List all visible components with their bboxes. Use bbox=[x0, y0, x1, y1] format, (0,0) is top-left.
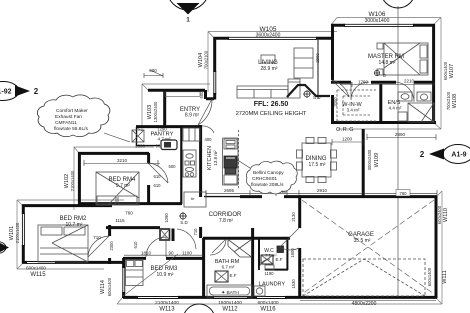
living coffee table bbox=[261, 55, 275, 63]
bed2 bed bbox=[38, 225, 88, 262]
window W114 thin bbox=[123, 267, 125, 293]
ENS shower bbox=[408, 103, 434, 122]
svg-text:flowrate 55.6L/s: flowrate 55.6L/s bbox=[54, 126, 88, 132]
svg-text:1530: 1530 bbox=[291, 279, 296, 289]
marker A1-91 left lower tip bbox=[0, 243, 9, 252]
svg-text:600x2400: 600x2400 bbox=[437, 205, 442, 224]
kitchen sink bbox=[224, 139, 237, 149]
window W101 thin bbox=[22, 213, 24, 246]
svg-text:W108: W108 bbox=[452, 94, 458, 108]
dim line master bottom 1760 2210 bbox=[340, 82, 434, 87]
laundry garage door arc bbox=[280, 228, 299, 250]
garage cross lines bbox=[302, 200, 434, 294]
svg-text:2130: 2130 bbox=[291, 212, 296, 222]
svg-text:O.R.G: O.R.G bbox=[336, 127, 354, 133]
bath door arc bbox=[210, 239, 226, 255]
svg-text:E.F: E.F bbox=[275, 257, 282, 262]
pantry sink fixture bbox=[161, 140, 177, 150]
svg-text:CRHC9S01: CRHC9S01 bbox=[252, 176, 277, 182]
svg-text:17.5 m²: 17.5 m² bbox=[309, 162, 326, 168]
ENS toilet bbox=[417, 92, 431, 101]
dim leader 600 arrow bbox=[150, 70, 163, 76]
svg-text:7.8 m²: 7.8 m² bbox=[219, 218, 234, 224]
section marker 1 top bbox=[167, 0, 209, 10]
svg-text:E.F: E.F bbox=[229, 273, 236, 278]
svg-text:2: 2 bbox=[34, 87, 39, 96]
svg-text:W115: W115 bbox=[30, 272, 46, 278]
svg-text:Bellini Canopy: Bellini Canopy bbox=[253, 170, 284, 176]
svg-text:610: 610 bbox=[154, 183, 162, 188]
outer eave bed4 left bbox=[74, 147, 154, 210]
wall pantry bottom nib bbox=[136, 127, 160, 146]
svg-text:4.7 m²: 4.7 m² bbox=[157, 137, 170, 142]
wall master top W106 chunks bbox=[331, 24, 435, 27]
wall bed4 right bbox=[147, 153, 150, 204]
svg-text:28.9 m²: 28.9 m² bbox=[261, 66, 278, 72]
svg-text:1300x2400: 1300x2400 bbox=[153, 101, 158, 122]
outer eave line living top bbox=[208, 32, 337, 93]
wall master right upper bbox=[432, 24, 435, 123]
wall bed2 right bbox=[108, 225, 111, 264]
WIN door arc bbox=[351, 82, 369, 100]
wall entry left W103 bbox=[163, 89, 166, 126]
wall bed4 left W102 bbox=[78, 152, 81, 205]
bed4 robe closet bbox=[183, 150, 196, 177]
wall master left bbox=[331, 24, 334, 80]
dim leader cloud1 bbox=[104, 133, 130, 142]
bed3 leader diagonal bbox=[123, 254, 178, 296]
bath shower bbox=[228, 240, 252, 258]
svg-text:90: 90 bbox=[156, 144, 161, 149]
window W116 thin bbox=[256, 297, 286, 299]
window W113 thin bbox=[137, 297, 179, 299]
wall living top W105 chunks bbox=[214, 37, 333, 40]
bed2 door arc bbox=[88, 236, 109, 257]
wall bed2 bottom W115 chunks bbox=[22, 261, 124, 264]
wall WIN ENS bottom bbox=[331, 121, 436, 124]
svg-text:S D: S D bbox=[313, 95, 321, 100]
garage dashed door rect bbox=[303, 259, 425, 296]
dining table bbox=[302, 143, 331, 177]
wc dark box bbox=[277, 246, 284, 253]
svg-text:10.9 m²: 10.9 m² bbox=[157, 272, 174, 278]
svg-text:1190: 1190 bbox=[264, 271, 274, 276]
wall corridor kitchen bottom thin bbox=[204, 196, 240, 198]
svg-text:90: 90 bbox=[168, 251, 174, 256]
window W112 thin bbox=[213, 297, 248, 299]
svg-text:600x1400: 600x1400 bbox=[443, 61, 448, 80]
robe lower box bbox=[184, 192, 206, 207]
svg-text:700x2100: 700x2100 bbox=[204, 50, 209, 69]
svg-text:3600x2400: 3600x2400 bbox=[256, 33, 281, 39]
dim line org 2890 bbox=[367, 134, 436, 140]
svg-text:2000: 2000 bbox=[333, 97, 338, 107]
svg-text:500: 500 bbox=[169, 164, 177, 169]
wall wc box bbox=[259, 238, 288, 270]
svg-text:710: 710 bbox=[93, 235, 101, 240]
svg-text:br: br bbox=[191, 196, 195, 201]
dim line garage bottom 4800 bbox=[300, 300, 436, 302]
svg-text:400: 400 bbox=[205, 137, 213, 142]
svg-text:9.7 m²: 9.7 m² bbox=[116, 183, 131, 189]
dim line corridor bottom row bbox=[206, 190, 437, 196]
svg-text:2: 2 bbox=[420, 150, 425, 159]
smoke detector corridor bbox=[179, 212, 187, 220]
wall corridor bottom left bbox=[106, 226, 160, 229]
svg-text:4.4 m²: 4.4 m² bbox=[389, 106, 402, 111]
svg-text:✦ BATH: ✦ BATH bbox=[221, 290, 239, 296]
svg-text:FFL: 26.50: FFL: 26.50 bbox=[254, 101, 289, 108]
wall dining right W109 bbox=[362, 129, 365, 197]
svg-text:500: 500 bbox=[199, 91, 204, 99]
svg-text:W116: W116 bbox=[260, 307, 276, 313]
svg-text:2210: 2210 bbox=[404, 79, 415, 84]
svg-text:2100x1400: 2100x1400 bbox=[15, 222, 20, 243]
wall corridor right stub bbox=[199, 227, 202, 238]
wall kitchen dining bottom bbox=[240, 195, 300, 198]
bed4 door arc bbox=[148, 163, 168, 183]
wall master bottom segments bbox=[331, 81, 435, 84]
wall garage top bbox=[299, 195, 437, 198]
svg-text:600x1400: 600x1400 bbox=[107, 277, 112, 296]
marker A1-92 left bbox=[0, 82, 19, 101]
wall bath left bbox=[202, 238, 205, 298]
svg-text:Comfort Maker: Comfort Maker bbox=[56, 108, 88, 114]
wall bottom main chunks bbox=[123, 296, 437, 299]
svg-text:2695: 2695 bbox=[224, 188, 235, 193]
svg-text:4800x2200: 4800x2200 bbox=[352, 301, 377, 307]
wall garage left segments bbox=[298, 196, 301, 298]
svg-text:2900: 2900 bbox=[315, 53, 320, 63]
kitchen entry arc bbox=[202, 126, 214, 133]
svg-text:610: 610 bbox=[133, 241, 138, 249]
svg-text:600x1400: 600x1400 bbox=[26, 266, 46, 271]
bed3 bed bbox=[126, 260, 144, 286]
svg-text:3.4 m²: 3.4 m² bbox=[347, 108, 360, 113]
wc toilet bbox=[265, 265, 274, 270]
master bed pillows bbox=[420, 45, 427, 58]
kitchen bench lower bbox=[224, 175, 237, 184]
wall robe left bbox=[180, 127, 182, 204]
svg-text:600: 600 bbox=[149, 68, 157, 73]
svg-text:1090: 1090 bbox=[164, 213, 169, 223]
wall kitchen left bbox=[199, 125, 202, 197]
section marker bottom circle bbox=[183, 304, 215, 313]
wall WIN ENS divider bbox=[379, 84, 382, 122]
dim line 600 entry diag bbox=[144, 73, 163, 78]
wall pantry top bbox=[136, 125, 202, 128]
svg-text:1200: 1200 bbox=[342, 137, 353, 142]
corridor linen X box bbox=[160, 229, 170, 240]
section line vertical bbox=[397, 6, 399, 297]
svg-text:W112: W112 bbox=[222, 307, 238, 313]
wall bed2 top bbox=[22, 204, 112, 207]
svg-text:610: 610 bbox=[154, 174, 162, 179]
outer eave garage bbox=[117, 191, 442, 304]
svg-text:35.5 m²: 35.5 m² bbox=[354, 238, 371, 244]
svg-text:6.7 m²: 6.7 m² bbox=[222, 265, 235, 270]
svg-text:1100: 1100 bbox=[182, 251, 192, 256]
front door leaf bbox=[198, 99, 212, 125]
wall living left W104 bbox=[213, 37, 216, 100]
ENS door arc bbox=[396, 82, 414, 102]
smoke detector master bbox=[374, 70, 380, 76]
ENS tub bbox=[398, 112, 407, 121]
svg-text:W114: W114 bbox=[100, 280, 106, 294]
svg-text:3000x1400: 3000x1400 bbox=[365, 18, 390, 24]
wall bed4 top bbox=[78, 152, 149, 155]
master side table bbox=[377, 43, 383, 49]
window W106 thin bbox=[344, 24, 414, 26]
section marker 2 top right circle bbox=[381, 0, 415, 8]
svg-text:2720MM CEILING HEIGHT: 2720MM CEILING HEIGHT bbox=[236, 111, 307, 117]
svg-text:1: 1 bbox=[186, 18, 190, 24]
svg-text:2890: 2890 bbox=[395, 132, 406, 137]
svg-text:1900: 1900 bbox=[290, 248, 295, 258]
marker A1-9 right bbox=[443, 145, 470, 164]
svg-text:W113: W113 bbox=[159, 307, 175, 313]
cloud comfort maker bbox=[37, 95, 109, 137]
svg-text:8.9 m²: 8.9 m² bbox=[185, 113, 200, 119]
svg-text:A1-92: A1-92 bbox=[0, 89, 12, 96]
wall entry top bbox=[148, 89, 205, 92]
outer eave left bed2 bbox=[17, 200, 124, 269]
front door panel bbox=[165, 92, 200, 97]
bath vanity bbox=[215, 271, 228, 282]
svg-text:2100x1400: 2100x1400 bbox=[70, 170, 75, 191]
svg-text:S.D: S.D bbox=[180, 220, 188, 225]
svg-text:600x1400: 600x1400 bbox=[427, 267, 432, 286]
wall bed3 left W114 bbox=[122, 258, 125, 298]
svg-text:700x2100: 700x2100 bbox=[446, 91, 451, 110]
svg-text:D: D bbox=[383, 73, 386, 78]
window W115 thin bbox=[26, 262, 56, 264]
wall bed3 top bbox=[123, 257, 204, 260]
outer eave line master top bbox=[331, 18, 441, 26]
dining chairs bbox=[306, 138, 314, 144]
svg-text:2910: 2910 bbox=[317, 188, 328, 193]
wall bed2 left W101 chunks bbox=[22, 205, 25, 263]
svg-text:1115: 1115 bbox=[115, 218, 125, 223]
dim line bed4 3210 bbox=[84, 160, 160, 166]
svg-text:flowrate 208L/s: flowrate 208L/s bbox=[251, 182, 284, 188]
svg-text:LAUNDRY: LAUNDRY bbox=[259, 282, 286, 288]
dim 760 boxed on garage wall bbox=[396, 190, 410, 197]
svg-text:2300: 2300 bbox=[109, 241, 114, 251]
wall linen nib bbox=[172, 229, 175, 242]
bath tub bbox=[207, 285, 252, 297]
WIN robe dashed bbox=[337, 90, 376, 121]
wall bath wc top bbox=[203, 237, 290, 240]
dim leader cloud2 bbox=[236, 159, 250, 168]
svg-text:1760: 1760 bbox=[358, 80, 369, 85]
wall laundry left bbox=[251, 228, 254, 298]
svg-text:13.8 m²: 13.8 m² bbox=[213, 150, 218, 166]
svg-text:3210: 3210 bbox=[117, 158, 128, 163]
ENS vanity bbox=[398, 92, 412, 101]
outer eave entry porch bbox=[136, 84, 210, 131]
wc door arc bbox=[259, 259, 270, 270]
svg-text:14.8 m²: 14.8 m² bbox=[379, 60, 396, 66]
svg-text:W110: W110 bbox=[443, 208, 449, 222]
wall entry porch return bbox=[206, 90, 215, 99]
svg-text:W109: W109 bbox=[374, 153, 380, 167]
laundry trough bbox=[254, 286, 265, 296]
cloud bellini canopy bbox=[246, 161, 297, 194]
outer eave right upper bbox=[338, 18, 441, 130]
bed4 bed bbox=[96, 172, 139, 205]
svg-text:2100x1400: 2100x1400 bbox=[155, 300, 179, 306]
wall garage right bbox=[435, 196, 438, 298]
corridor linen door arc bbox=[177, 229, 196, 249]
kitchen bench bbox=[223, 138, 238, 185]
linen box X bbox=[132, 130, 144, 142]
svg-text:1500x1400: 1500x1400 bbox=[218, 300, 242, 306]
wall living hall nib bbox=[317, 40, 319, 99]
window W104 thin bbox=[214, 71, 216, 94]
svg-text:2500: 2500 bbox=[135, 144, 146, 149]
living shelf unit bbox=[294, 48, 313, 78]
svg-text:3000x2400: 3000x2400 bbox=[367, 149, 372, 170]
living sofa bbox=[237, 86, 288, 98]
svg-text:W111: W111 bbox=[442, 270, 448, 284]
wall bed4 bottom bbox=[78, 202, 182, 205]
master bed bbox=[384, 43, 428, 75]
bed3 door arc bbox=[146, 237, 166, 257]
living sofa corner bbox=[288, 79, 300, 98]
svg-text:W107: W107 bbox=[449, 64, 455, 78]
svg-text:1810: 1810 bbox=[141, 251, 152, 256]
dim line org 1200 bbox=[332, 139, 363, 145]
svg-text:600x1400: 600x1400 bbox=[257, 300, 278, 306]
kitchen oven dark bbox=[224, 156, 237, 168]
svg-text:CMFAN11: CMFAN11 bbox=[55, 120, 77, 126]
living fireplace chevron wall bbox=[287, 85, 330, 97]
svg-text:760: 760 bbox=[400, 191, 408, 196]
master door arc bbox=[332, 80, 349, 97]
dim line bed3 row 1810-1100 bbox=[124, 254, 204, 256]
svg-text:760: 760 bbox=[125, 211, 133, 216]
svg-text:W106: W106 bbox=[369, 11, 386, 18]
svg-text:710: 710 bbox=[193, 228, 198, 236]
smoke detector living bbox=[303, 90, 311, 98]
svg-text:Exhaust Fan: Exhaust Fan bbox=[55, 114, 82, 120]
wc vanity bbox=[261, 255, 273, 264]
svg-text:10.7 m²: 10.7 m² bbox=[66, 222, 83, 228]
kitchen upper bench bbox=[183, 128, 200, 141]
wall WIN left lower bbox=[331, 95, 334, 123]
kitchen cooktop dark bbox=[225, 168, 236, 174]
window W105 thin bbox=[228, 37, 317, 39]
svg-text:A1-9: A1-9 bbox=[451, 152, 466, 159]
